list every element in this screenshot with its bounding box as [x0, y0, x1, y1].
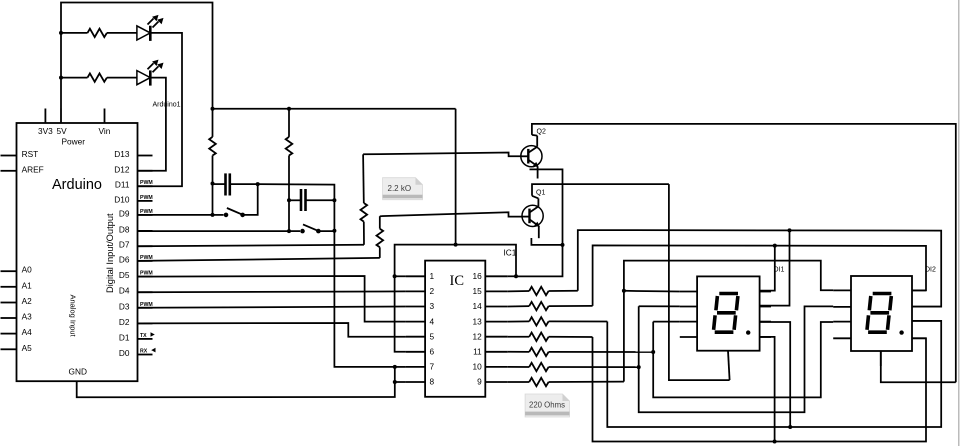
wire DI1 r1 up to H_c [760, 246, 775, 291]
resistor Rs11 220 [508, 348, 653, 356]
svg-text:3: 3 [430, 301, 435, 311]
Arduino pin A3 [1, 317, 17, 319]
wire DI1 r3 down to R3 [760, 322, 791, 427]
svg-text:D3: D3 [119, 301, 130, 311]
Arduino pin A4 [1, 333, 17, 335]
svg-text:D4: D4 [119, 286, 130, 296]
wire net-e rail R4 [593, 337, 927, 442]
Arduino pin AREF [1, 170, 17, 172]
dp DI1 [746, 330, 750, 334]
wire net-c rail R1 DI1 left3 to DI2 left3 [653, 321, 680, 323]
svg-text:D5: D5 [119, 270, 130, 280]
node IC power rail junction [454, 243, 458, 247]
wire DI1 left2 feed [639, 305, 680, 307]
LED LED1 [137, 15, 164, 41]
resistor R3 pullup D9 [209, 109, 216, 184]
svg-text:D8: D8 [119, 224, 130, 234]
wire DI1 r4 down to R4 [760, 337, 775, 442]
wire cap1 right down to switch1 [243, 184, 258, 215]
note 220 Ohms [525, 394, 569, 417]
Arduino pin 5V [60, 109, 62, 124]
svg-text:4: 4 [430, 316, 435, 326]
switch S1 [213, 208, 245, 217]
svg-text:Q2: Q2 [537, 129, 546, 136]
wire Q1 emitter to junction [531, 238, 562, 245]
svg-text:D6: D6 [119, 254, 130, 264]
node IC pin7 [393, 365, 397, 369]
node D9/switch1 junction [211, 213, 215, 217]
IC pin stubs left 1-8 [406, 276, 425, 382]
svg-text:Vin: Vin [99, 126, 111, 136]
right canvas edge [958, 0, 960, 446]
switch S2 [289, 224, 334, 233]
svg-text:PWM: PWM [140, 209, 153, 215]
wire DI1 left1 feed [624, 290, 680, 293]
resistor Rs13 220 [508, 317, 608, 325]
svg-text:5: 5 [430, 331, 435, 341]
wire Q2 collector rail [532, 124, 956, 382]
Arduino pin RST [1, 155, 17, 157]
wire resistor to LED2 [107, 77, 137, 79]
node IC pin8 [393, 380, 397, 384]
svg-text:D0: D0 [119, 348, 130, 358]
node IC pin16 [514, 274, 518, 278]
resistor Rs15 220 [508, 287, 578, 295]
Arduino pin A0 [1, 270, 17, 272]
wire resistor to LED1 [107, 32, 137, 34]
svg-text:Q1: Q1 [536, 190, 545, 197]
svg-text:D13: D13 [114, 149, 130, 159]
wire pin8 junction to stub [395, 381, 406, 383]
node IC pin1 [393, 274, 397, 278]
svg-text:D7: D7 [119, 240, 130, 250]
wire pin1 to stub [395, 275, 406, 277]
svg-text:TX: TX [140, 333, 147, 339]
Arduino U1 body [17, 123, 138, 381]
wire cap1 node to switch2 column [258, 184, 335, 200]
svg-text:IC: IC [450, 273, 465, 289]
node 5V/LED2 junction [59, 76, 63, 80]
display DI2 [833, 276, 941, 366]
svg-text:9: 9 [477, 377, 482, 387]
svg-text:D9: D9 [119, 208, 130, 218]
svg-text:AREF: AREF [22, 164, 44, 174]
LED LED2 [137, 60, 164, 86]
svg-text:IC1: IC1 [504, 248, 517, 258]
svg-text:Arduino1: Arduino1 [153, 102, 181, 109]
node 5V/LED1 junction [59, 31, 63, 35]
node D8/switch2 junction [287, 229, 291, 233]
wire Q1 base [380, 212, 522, 216]
resistor Rs12 220 [508, 333, 593, 341]
svg-text:Power: Power [62, 136, 86, 146]
wire LED1 row [61, 32, 88, 34]
svg-text:Arduino: Arduino [52, 177, 102, 193]
wire Q1 rail down to DI1 common [669, 184, 730, 380]
wire DI1 segment left1 [623, 291, 625, 382]
node H_a DI1 branch [622, 289, 626, 293]
wire D3 to IC pin3 [138, 307, 406, 308]
svg-text:8: 8 [430, 377, 435, 387]
svg-text:D12: D12 [114, 164, 130, 174]
node switch2 right junction [332, 229, 336, 233]
wire D6 to Rb bottom [138, 258, 380, 261]
Arduino pins D13-D0 stubs [138, 156, 153, 355]
Arduino pin A5 [1, 348, 17, 350]
svg-text:220 Ohms: 220 Ohms [529, 401, 565, 410]
svg-text:16: 16 [472, 271, 482, 281]
svg-text:12: 12 [472, 331, 482, 341]
wire Q2 collector jog [532, 134, 537, 137]
IC pin stubs right 16-9 [485, 276, 508, 382]
node R4 DI1r4 tap [773, 440, 777, 444]
node D9/cap1 junction [211, 182, 215, 186]
node rail/R3 junction [211, 107, 215, 111]
svg-text:1: 1 [430, 271, 435, 281]
svg-text:3V3: 3V3 [38, 126, 53, 136]
resistor R4 pullup D8 [286, 109, 293, 201]
wire rail down to IC power [455, 109, 457, 245]
wire D2 to IC pin5 [138, 323, 406, 337]
node p10 tap [637, 365, 641, 369]
wire DI1 r2 up to H_b [760, 230, 790, 305]
resistor Ra 2.2k base Q2 [361, 154, 368, 245]
IC IC1 body [425, 261, 485, 397]
resistor Rb 2.2k base Q1 [377, 216, 384, 258]
svg-text:11: 11 [473, 347, 482, 357]
resistor Rs10 220 [508, 363, 639, 371]
wire net-b top rail H_b [578, 230, 941, 307]
svg-text:6: 6 [430, 347, 435, 357]
svg-text:DI1: DI1 [774, 267, 785, 274]
note 2.2 kO [383, 178, 423, 200]
wire D4 to IC pin2 [138, 290, 406, 293]
node H_c branch [773, 244, 777, 248]
svg-text:15: 15 [472, 286, 482, 296]
wire Q2 emitter [516, 169, 563, 276]
node H_b branch [788, 228, 792, 232]
node p11 tap [651, 350, 655, 354]
Arduino pin Vin [104, 109, 106, 124]
digit DI1 8 [714, 294, 738, 333]
wire D8 to junction [138, 230, 290, 232]
Arduino pin GND [76, 381, 78, 389]
svg-text:Analog Input: Analog Input [69, 295, 78, 338]
Arduino pin 3V3 [44, 109, 46, 124]
wire D7 to Ra bottom [138, 245, 365, 246]
wire junction down to D9 row [212, 184, 214, 215]
resistor Rs9 220 [508, 378, 624, 386]
wire net-a top rail H_c [593, 245, 926, 306]
PWM labels [140, 180, 153, 308]
node cap2 right junction [332, 198, 336, 202]
svg-text:13: 13 [472, 316, 482, 326]
transistor Q2 [521, 136, 542, 179]
svg-text:D10: D10 [114, 194, 130, 204]
resistor LED2 series [88, 73, 107, 81]
svg-text:RST: RST [22, 149, 39, 159]
wire LED2 to D12 [138, 78, 166, 171]
node rail/R4 junction [287, 107, 291, 111]
svg-text:A3: A3 [22, 312, 33, 322]
svg-text:PWM: PWM [140, 180, 153, 186]
Arduino pin A2 [1, 302, 17, 304]
wire net-g H_a to DI2 left1 [624, 261, 833, 291]
svg-text:D11: D11 [115, 180, 130, 190]
svg-text:Digital Input/Output: Digital Input/Output [105, 213, 115, 293]
svg-text:D2: D2 [119, 317, 130, 327]
node cap2 left junction [287, 198, 291, 202]
svg-text:10: 10 [472, 362, 482, 372]
wire cap2/switch2 column down to IC pin7 [334, 200, 394, 367]
svg-text:A2: A2 [22, 296, 33, 306]
svg-text:A5: A5 [22, 343, 33, 353]
wire pin1 to pin6 [395, 276, 406, 352]
svg-text:RX: RX [140, 349, 148, 355]
resistor LED1 series [88, 29, 107, 37]
wire 5V rail to right [213, 108, 456, 110]
wire Q2 base [363, 153, 521, 157]
node Q emitters junction [561, 243, 565, 247]
svg-text:7: 7 [430, 362, 435, 372]
wire D5 to IC pin4 [138, 276, 406, 322]
svg-text:14: 14 [472, 301, 482, 311]
svg-text:A4: A4 [22, 327, 33, 337]
svg-text:GND: GND [69, 367, 87, 377]
wire 5V vertical rail [61, 3, 213, 109]
wire pin7 junction to stub [395, 366, 406, 368]
Arduino pin A1 [1, 286, 17, 288]
svg-text:DI2: DI2 [925, 267, 936, 274]
IC pin numbers [430, 271, 435, 387]
wire LED1 to D11 [138, 33, 183, 186]
svg-text:5V: 5V [57, 126, 68, 136]
wire net-d rail R3 [607, 321, 941, 427]
wire pin7 to pin8 to GND [77, 367, 395, 397]
wire Q1 collector jog [532, 196, 538, 199]
wire Q1 collector rail [532, 184, 669, 196]
svg-text:2.2 kO: 2.2 kO [388, 184, 412, 193]
svg-text:A0: A0 [22, 265, 33, 275]
resistor Rs14 220 [508, 302, 593, 310]
wire pin16 to stub [508, 275, 516, 277]
transistor Q1 [522, 198, 543, 238]
capacitor C1 [213, 173, 258, 195]
wire junction down to D8 row [288, 200, 290, 231]
wire LED2 row [61, 77, 88, 79]
node R3 V791 tap [788, 425, 792, 429]
wire net-f loop DI1 left2 to DI2 left2 [639, 306, 834, 412]
display DI1 [680, 276, 771, 380]
svg-text:D1: D1 [119, 332, 130, 342]
node cap1 right junction [256, 182, 260, 186]
svg-text:2: 2 [430, 286, 435, 296]
wire IC power loop pin1-pin16 [395, 245, 516, 277]
svg-text:A1: A1 [22, 280, 33, 290]
wire D9 to junction [138, 214, 213, 216]
svg-text:PWM: PWM [140, 195, 153, 201]
wire DI2 common to Q2 rail [881, 351, 956, 382]
digit DI2 8 [867, 294, 891, 333]
dp DI2 [899, 330, 903, 334]
capacitor C2 [289, 189, 334, 211]
